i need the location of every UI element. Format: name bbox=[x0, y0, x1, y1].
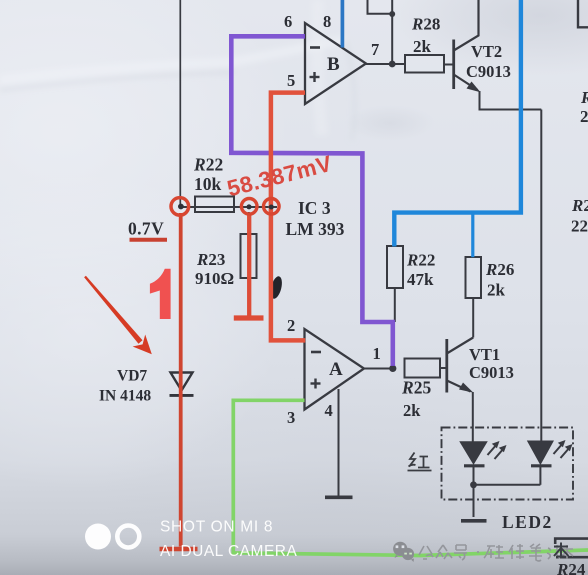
svg-text:SHOT ON MI 8: SHOT ON MI 8 bbox=[160, 519, 273, 536]
svg-text:2k: 2k bbox=[403, 401, 421, 420]
svg-text:LED2: LED2 bbox=[502, 512, 553, 532]
label R22 47k bbox=[406, 251, 435, 270]
svg-text:R22: R22 bbox=[193, 155, 223, 175]
op-amp B triangle bbox=[305, 23, 366, 104]
WATERMARKS bbox=[85, 519, 573, 563]
diode VD7 symbol bbox=[170, 373, 194, 396]
red wire: pin5 trace down through node to pin2 bbox=[271, 93, 305, 341]
svg-text:AI DUAL CAMERA: AI DUAL CAMERA bbox=[160, 543, 298, 560]
svg-text:1: 1 bbox=[373, 344, 381, 363]
resistor R22 (10k) body bbox=[195, 197, 234, 213]
label 47k bbox=[407, 270, 434, 289]
red underline of 0.7V bbox=[130, 238, 168, 242]
label pin 3 bbox=[287, 408, 295, 427]
svg-text:22: 22 bbox=[571, 217, 588, 236]
svg-text:R25: R25 bbox=[401, 378, 431, 398]
svg-text:0.7V: 0.7V bbox=[128, 219, 164, 239]
svg-text:A: A bbox=[329, 359, 343, 380]
svg-text:910Ω: 910Ω bbox=[195, 269, 234, 288]
label VD7 bbox=[117, 368, 147, 385]
LED enclosure dash-dot box bbox=[442, 428, 574, 500]
label R25 value 2k bbox=[403, 401, 421, 420]
red ground tick bottom left bbox=[160, 547, 198, 552]
op-amp A plus sign bbox=[311, 379, 321, 389]
red node circle left bbox=[171, 198, 189, 216]
label pin 7 bbox=[371, 40, 379, 59]
LED D1 emission arrows bbox=[488, 441, 507, 459]
wire: R22 47k bottom lead bbox=[394, 288, 396, 322]
label LED2 bbox=[502, 512, 553, 532]
label VT2 type C9013 bbox=[466, 62, 511, 81]
label op-amp A bbox=[329, 359, 343, 380]
label hong (red) chinese char bbox=[408, 453, 432, 471]
watermark AI DUAL CAMERA bbox=[160, 543, 298, 560]
svg-text:C9013: C9013 bbox=[466, 62, 511, 81]
resistor R23 leads bbox=[248, 212, 250, 316]
svg-text:10k: 10k bbox=[194, 174, 222, 194]
svg-text:R: R bbox=[580, 88, 588, 107]
MARKER-BLUE pin8 wire bbox=[341, 0, 345, 48]
label op-amp B bbox=[327, 54, 340, 75]
svg-text:5: 5 bbox=[287, 71, 295, 90]
label VT1 bbox=[469, 345, 500, 364]
watermark filled circle bbox=[85, 524, 111, 550]
label R25 bbox=[401, 378, 431, 398]
label IC 3 bbox=[298, 198, 331, 218]
wire: vertical into node from top x392 bbox=[391, 0, 393, 64]
wire: R28 right lead to VT2 base bbox=[444, 64, 453, 66]
label VT2 bbox=[471, 42, 502, 61]
label R23 bbox=[196, 250, 225, 269]
svg-text:R23: R23 bbox=[196, 250, 225, 269]
watermark text gongzhonghao yingjianbijiben bbox=[419, 544, 573, 561]
label pin 2 bbox=[287, 316, 295, 335]
svg-text:2: 2 bbox=[287, 316, 295, 335]
label R28 bbox=[411, 15, 440, 34]
resistor R28 body bbox=[405, 55, 444, 73]
label R22 value 10k bbox=[194, 174, 222, 194]
svg-text:7: 7 bbox=[371, 40, 379, 59]
svg-text:R26: R26 bbox=[485, 260, 514, 279]
wire: left schematic border vertical bbox=[179, 0, 181, 205]
wire: op-amp A pin4 down bbox=[338, 389, 340, 497]
svg-text:VD7: VD7 bbox=[117, 368, 147, 385]
wire: top feedback bracket bbox=[368, 0, 393, 14]
SCHEMATIC-BLACK bbox=[170, 0, 588, 557]
label pin 8 bbox=[323, 12, 331, 31]
MARKER-GREEN wire from pin3 to bottom right bbox=[233, 400, 588, 555]
label R22 top bbox=[193, 155, 223, 175]
svg-text:B: B bbox=[327, 54, 340, 75]
label pin 4 bbox=[325, 401, 333, 420]
label R26 value 2k bbox=[487, 281, 506, 300]
LED D2 emission arrows bbox=[554, 440, 573, 458]
partial label R right edge top bbox=[580, 88, 588, 107]
node dot at op-amp B output bbox=[389, 61, 396, 68]
svg-text:R2: R2 bbox=[571, 196, 588, 215]
svg-text:IC 3: IC 3 bbox=[298, 198, 331, 218]
red node circle right bbox=[264, 199, 280, 215]
svg-text:47k: 47k bbox=[407, 270, 434, 289]
watermark SHOT ON MI 8 bbox=[160, 519, 273, 536]
transistor VT2 bbox=[454, 0, 481, 92]
LED D1 bbox=[461, 442, 486, 485]
wire: VT1 emitter down to LED1 bbox=[472, 392, 474, 443]
op-amp B minus sign bbox=[310, 46, 320, 49]
resistor R24 body (cut by edge) bbox=[555, 539, 588, 558]
MARKER-BLUE long vertical and branch to R22 47k bbox=[394, 0, 521, 257]
wire: LED junction down to ground bbox=[473, 485, 475, 517]
wire: op-amp B output to node bbox=[366, 63, 393, 65]
RED-ANNOTATIONS bbox=[84, 93, 334, 549]
red big numeral 1 bbox=[150, 269, 171, 319]
junction dot LED cathode bbox=[470, 481, 477, 488]
dark shape over last watermark char bbox=[554, 543, 569, 559]
label R24 bottom right bbox=[556, 560, 586, 575]
label pin 5 bbox=[287, 71, 295, 90]
wire: main horizontal node rail y207 bbox=[180, 206, 277, 208]
black junction dots in circles bbox=[178, 204, 274, 210]
ground bar below LED box bbox=[461, 519, 487, 523]
svg-text:6: 6 bbox=[284, 12, 292, 31]
wire: VT2 emitter down and right to x541 bbox=[480, 91, 542, 110]
op-amp B plus sign bbox=[310, 72, 320, 82]
label R23 value 910ohm bbox=[195, 269, 234, 288]
wire: op-amp A output to node 1 bbox=[364, 368, 393, 370]
node dot 1 bbox=[389, 365, 396, 372]
label R28 value 2k bbox=[413, 37, 432, 56]
red wire: vertical at x180 node to bottom bbox=[179, 213, 183, 547]
MARKER-PURPLE wire trace from pin6 to node1 bbox=[231, 36, 392, 366]
svg-text:2: 2 bbox=[580, 107, 588, 126]
resistor R22 47k body bbox=[387, 246, 403, 288]
resistor R25 body bbox=[405, 359, 441, 378]
label LM 393 bbox=[286, 219, 345, 239]
label IN 4148 bbox=[99, 388, 151, 405]
label VT1 type C9013 bbox=[469, 363, 514, 382]
red node circle middle bbox=[241, 199, 257, 215]
red wire: R23 branch down to red ground bbox=[247, 213, 251, 316]
watermark ring circle bbox=[117, 526, 139, 548]
red arrow annotation bbox=[84, 276, 152, 355]
ink blob bbox=[269, 275, 284, 300]
red ground tick below R23 bbox=[234, 315, 264, 320]
wechat logo bbox=[393, 542, 414, 562]
svg-text:LM 393: LM 393 bbox=[286, 219, 345, 239]
wire: long vertical x541 from VT2 emitter to LED2 bbox=[540, 110, 542, 443]
label 0.7V bbox=[128, 219, 164, 239]
svg-text:IN 4148: IN 4148 bbox=[99, 388, 151, 405]
partial label 22 right edge bbox=[571, 217, 588, 236]
resistor R23 body bbox=[241, 234, 257, 278]
label R26 bbox=[485, 260, 514, 279]
svg-text:R22: R22 bbox=[406, 251, 435, 270]
wire: R25 right lead bbox=[440, 367, 447, 369]
svg-text:2k: 2k bbox=[413, 37, 432, 56]
wire: R28 left lead bbox=[392, 63, 405, 65]
partial label R2 right edge bbox=[571, 196, 588, 215]
resistor R26 bottom lead to VT1 collector bbox=[472, 298, 474, 338]
wire: LED cathode rail bbox=[474, 484, 541, 486]
svg-text:8: 8 bbox=[323, 12, 331, 31]
transistor VT1 bbox=[447, 338, 474, 393]
label pin 6 bbox=[284, 12, 292, 31]
LED D2 bbox=[529, 442, 553, 485]
svg-text:VT2: VT2 bbox=[471, 42, 502, 61]
svg-text:2k: 2k bbox=[487, 281, 506, 300]
wire: top-right corner bracket bbox=[578, 0, 588, 27]
svg-text:C9013: C9013 bbox=[469, 363, 514, 382]
op-amp A minus sign bbox=[311, 351, 321, 354]
svg-text:R24: R24 bbox=[556, 560, 586, 575]
ground bar for pin4 bbox=[325, 495, 353, 499]
resistor R26 body bbox=[466, 257, 482, 298]
svg-text:VT1: VT1 bbox=[469, 345, 500, 364]
svg-text:R28: R28 bbox=[411, 15, 440, 34]
label pin 1 bbox=[373, 344, 381, 363]
partial label 2 right edge bbox=[580, 107, 588, 126]
red measurement text 58.387mV bbox=[225, 151, 335, 201]
svg-text:3: 3 bbox=[287, 408, 295, 427]
svg-text:4: 4 bbox=[325, 401, 333, 420]
junction dot on x392 wire bbox=[389, 11, 395, 17]
op-amp A triangle bbox=[305, 329, 365, 410]
